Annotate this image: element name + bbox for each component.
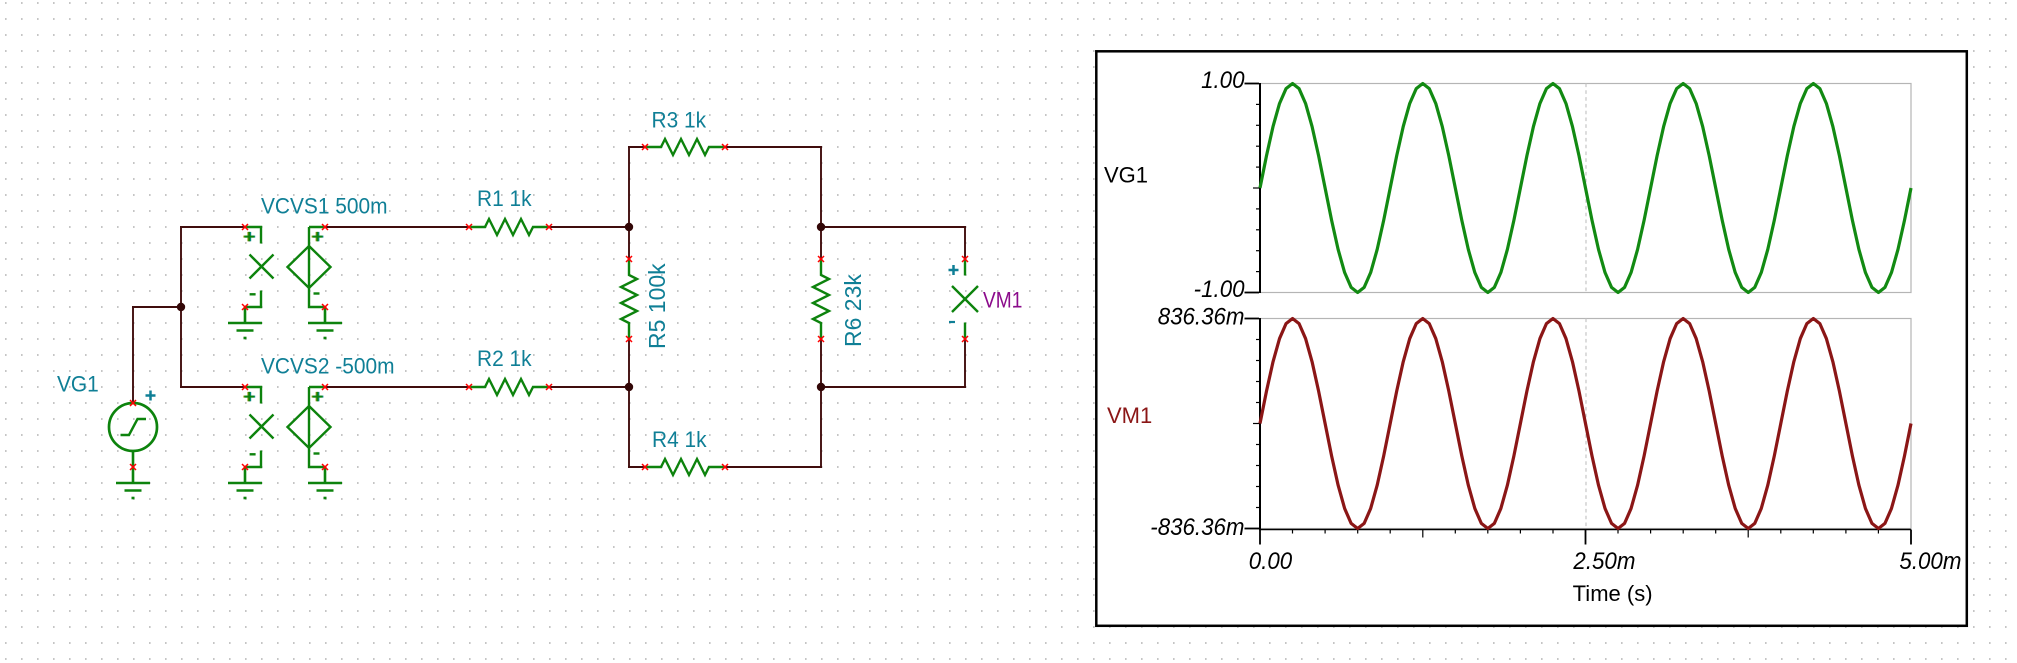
pin marker x at (325,307) [322,304,328,310]
junction node B [817,223,825,231]
VG1 plus mark [146,391,156,401]
y axis plot 1 [1259,83,1261,293]
svg-text:-836.36m: -836.36m [1150,513,1244,540]
VCVS2 dependent source diamond [309,387,325,406]
pin marker x at (549,227) [546,224,552,230]
svg-text:VCVS1 500m: VCVS1 500m [261,194,388,219]
svg-text:2.50m: 2.50m [1572,547,1635,574]
ground at VCVS2 input [228,467,262,498]
wire node A up to R3 [628,146,630,228]
wire node C down to R4 [628,386,630,468]
pin marker x at (629,339) [626,336,632,342]
wire node D to VM1 bottom [820,386,966,388]
wire node B down to R6 [820,226,822,259]
pin marker x at (725,147) [722,144,728,150]
plot 1 frame [1260,84,1911,293]
svg-text:VM1: VM1 [983,288,1022,313]
pin marker x at (469,227) [466,224,472,230]
pin marker x at (965,259) [962,256,968,262]
svg-text:1.00: 1.00 [1201,66,1245,93]
pin marker x at (245,387) [242,384,248,390]
pin marker x at (965,339) [962,336,968,342]
pin marker x at (821,259) [818,256,824,262]
svg-text:R6 23k: R6 23k [840,274,866,347]
svg-text:VM1: VM1 [1107,403,1152,428]
ground at VCVS1 output [308,307,342,338]
ground at VCVS2 output [308,467,342,498]
ground at VCVS1 input [228,307,262,338]
junction node A [625,223,633,231]
pin marker x at (645,147) [642,144,648,150]
voltmeter VM1 [964,259,966,276]
svg-text:836.36m: 836.36m [1158,303,1245,330]
pin marker x at (821,339) [818,336,824,342]
junction node VG1 split [177,303,185,311]
x axis [1259,529,1911,531]
ground below VG1 [116,467,150,498]
resistor R5 [621,259,637,339]
y axis plot 2 [1259,318,1261,529]
svg-text:R3 1k: R3 1k [652,108,707,133]
VCVS1 controlling input [245,227,261,244]
wire R4 to node D [725,466,822,468]
pin marker x at (245,307) [242,304,248,310]
resistor R2 [469,379,549,395]
plot 2 frame [1260,319,1911,529]
diagram panel frame [1096,51,1967,626]
dashed gridline at 2.50m (lower plot) [1585,319,1587,530]
svg-text:R4 1k: R4 1k [652,428,707,453]
svg-text:-1.00: -1.00 [1194,275,1245,302]
wire VCVS1 output to R1 [325,226,469,228]
pin marker x at (645,467) [642,464,648,470]
pin marker x at (133,403) [130,400,136,406]
VM1 plus mark [949,265,959,275]
pin marker x at (469,387) [466,384,472,390]
svg-text:R2 1k: R2 1k [477,346,532,371]
svg-text:0.00: 0.00 [1249,547,1293,574]
wire node to VCVS2 input [180,306,182,388]
wire node B to VM1 [820,226,966,228]
VM1 minus mark [949,321,955,323]
waveform VG1 [1260,84,1911,293]
VCVS2 controlling input [245,387,261,404]
svg-text:VG1: VG1 [57,372,99,397]
svg-text:R1 1k: R1 1k [477,186,532,211]
junction node D [817,383,825,391]
pin marker x at (725,467) [722,464,728,470]
wire node A down to R5 [628,226,630,259]
wire VCVS2 output to R2 [325,386,469,388]
y ticks plot 1 [1253,104,1259,271]
voltage generator VG1 [109,403,157,451]
resistor R4 [645,459,725,475]
dashed gridline at 2.50m [1585,84,1587,293]
x ticks [1260,530,1911,545]
VCVS1 dependent source diamond [309,227,325,246]
svg-text:Time (s): Time (s) [1573,581,1653,606]
pin marker x at (245,227) [242,224,248,230]
pin marker x at (549,387) [546,384,552,390]
resistor R1 [469,219,549,235]
pin marker x at (245,467) [242,464,248,470]
wire R6 to node D [820,339,822,388]
wire VG1 top to node [132,306,134,403]
pin marker x at (325,467) [322,464,328,470]
pin marker x at (325,387) [322,384,328,390]
pin marker x at (325,227) [322,224,328,230]
wire R3 to node B [725,146,822,148]
waveform VM1 [1260,319,1911,529]
pin marker x at (133,467) [130,464,136,470]
wire R1 to node A [549,226,630,228]
wire R2 to node C [549,386,630,388]
svg-text:VG1: VG1 [1104,163,1148,188]
pin marker x at (629,259) [626,256,632,262]
y ticks plot 2 [1253,340,1259,508]
svg-text:5.00m: 5.00m [1899,547,1961,574]
resistor R6 [813,259,829,339]
junction node C [625,383,633,391]
wire R5 to node C [628,339,630,388]
svg-text:R5 100k: R5 100k [644,263,670,349]
wire node to VCVS1 input [180,226,182,308]
svg-text:VCVS2 -500m: VCVS2 -500m [261,354,394,379]
resistor R3 [645,139,725,155]
